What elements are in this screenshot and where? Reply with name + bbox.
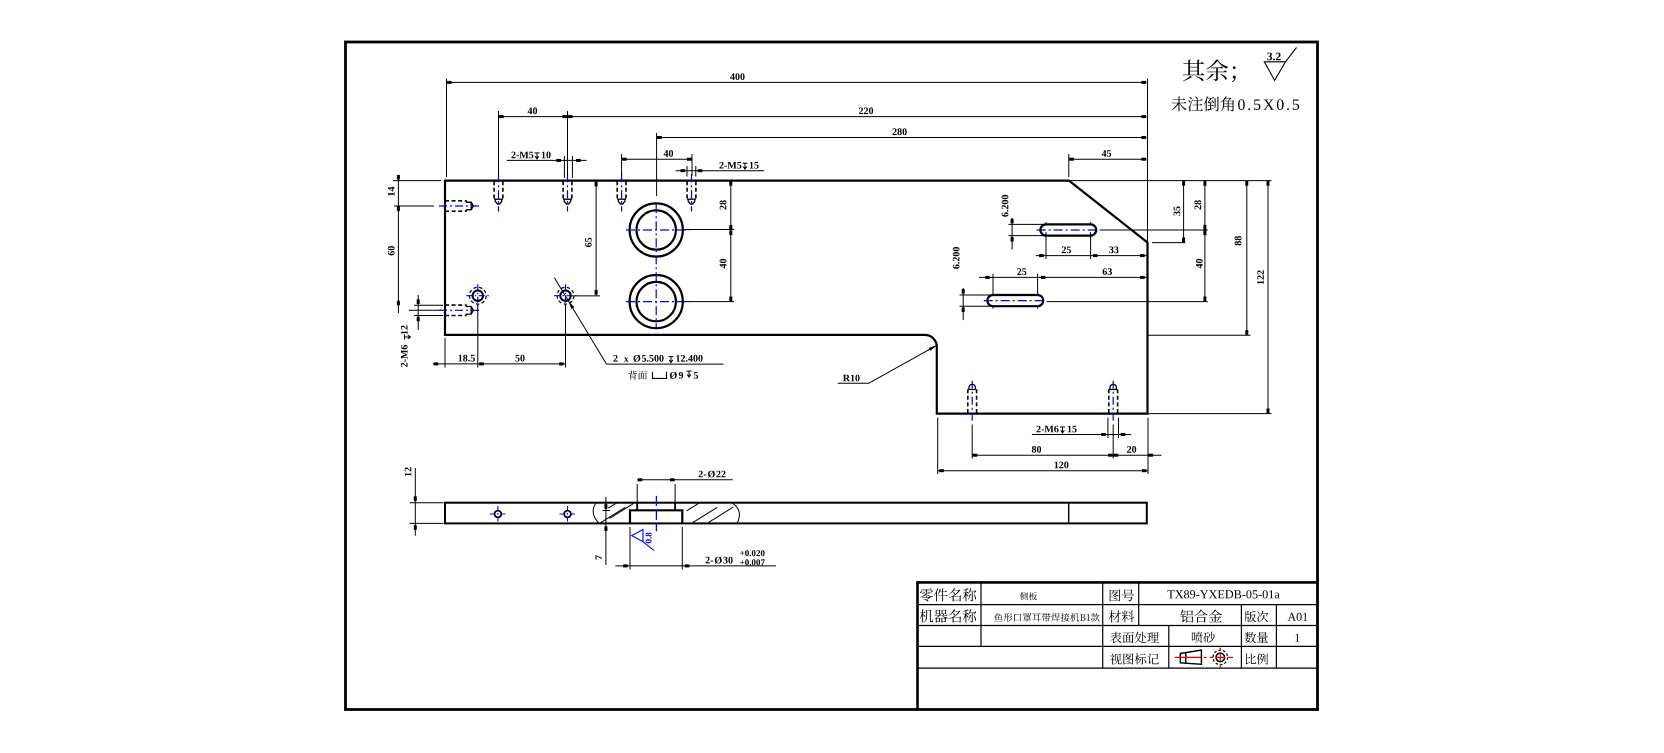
value part name 侧板 xyxy=(1020,592,1037,600)
break line right xyxy=(732,503,740,524)
dim 2-phi22 xyxy=(636,484,638,502)
dim 65 xyxy=(572,295,600,297)
centerline tapped hole x=567.5 xyxy=(567,174,569,211)
dim 280 xyxy=(656,133,658,196)
slot 2 (lower) xyxy=(987,295,1043,306)
tapped hole from top edge x=621.6 xyxy=(616,181,618,199)
dim 28 right xyxy=(1204,181,1206,230)
leader face holes callout xyxy=(554,278,606,364)
dim 2-phi30 with tolerance xyxy=(629,527,631,570)
centerline face hole x=477.8 xyxy=(466,295,489,297)
dim 6.200 upper slot xyxy=(1009,223,1045,225)
side view hole 1 xyxy=(495,511,502,518)
centerline big hole 2 horizontal xyxy=(626,301,690,303)
value 喷砂 xyxy=(1192,632,1215,643)
dim 12 thickness xyxy=(410,502,444,504)
label 版次 xyxy=(1245,611,1269,622)
title block frame xyxy=(916,582,919,709)
dim 25 upper slot xyxy=(1045,232,1047,259)
surface roughness symbol 3.2 xyxy=(1267,53,1281,61)
dim 28 left of circles xyxy=(684,229,735,231)
value quantity 1 xyxy=(1295,634,1299,642)
centerline tapped hole x=498.5 xyxy=(498,174,500,211)
dim 6.200 lower slot xyxy=(960,294,993,296)
big hole 1 inner circle xyxy=(637,210,676,249)
dim 40 (M5 holes) xyxy=(621,154,623,176)
centerline tab hole x=972.2 xyxy=(971,381,973,423)
label 视图标记 xyxy=(1110,653,1159,664)
tapped hole from top edge x=691.5 xyxy=(686,181,688,199)
roughness 0.8 blue symbol xyxy=(632,530,654,551)
centerline slot 2 xyxy=(984,300,1047,302)
value A01 xyxy=(1288,613,1308,621)
dim 220 and 40 xyxy=(498,111,500,176)
label 零件名称 xyxy=(920,588,977,601)
value 铝合金 xyxy=(1180,610,1222,623)
dim 40 left of circles xyxy=(684,301,735,303)
centerline slot 1 xyxy=(1037,229,1102,231)
projection symbol cone xyxy=(1180,650,1201,664)
dim 18.5 and 50 xyxy=(444,338,446,368)
label 材料 xyxy=(1109,610,1135,622)
label 比例 xyxy=(1246,653,1268,664)
side view chamfer edge line xyxy=(1068,503,1070,524)
big hole 2 inner circle xyxy=(637,282,676,321)
extension tab bottom right xyxy=(1148,413,1272,415)
dim 25-63 lower slot xyxy=(992,274,994,295)
counterbore phi30 pocket xyxy=(630,510,682,523)
centerline counterbore xyxy=(655,496,657,531)
callout 2-M6 depth12 xyxy=(414,304,443,306)
centerline side hole y=310.3 xyxy=(439,309,481,311)
centerline big holes vertical xyxy=(655,204,657,328)
dim 122 xyxy=(1267,181,1269,414)
leader R10 xyxy=(838,345,938,383)
dim 400 xyxy=(446,79,448,178)
side drilled hole M6 y=310.3 xyxy=(445,304,467,306)
tapped hole from top edge x=498.5 xyxy=(493,181,495,199)
centerline tab hole x=1113.2 xyxy=(1112,381,1114,423)
big hole 2 outer circle xyxy=(630,275,683,328)
side view outline xyxy=(445,503,1147,524)
centerline tapped hole x=621.6 xyxy=(621,174,623,211)
extension slot2 center right xyxy=(1047,301,1208,303)
label 图号 xyxy=(1110,589,1134,601)
centerline big hole 1 horizontal xyxy=(626,229,690,231)
note 未注倒角0.5X0.5 (unnoted chamfer) xyxy=(1171,96,1234,111)
hatching left xyxy=(601,507,625,522)
callout 2-M5 depth10 xyxy=(563,156,565,178)
projection symbol circles xyxy=(1213,650,1228,665)
dim 120 xyxy=(937,418,939,474)
dim 60 xyxy=(409,309,443,311)
counterbore hole phi22 walls xyxy=(636,503,638,511)
face hole 5.5 with back c'bore x=565.5 xyxy=(560,291,570,301)
projection symbol centerline red xyxy=(1175,656,1201,658)
dim 88 xyxy=(1246,181,1248,336)
drawing border frame xyxy=(346,42,1318,710)
extension slot1 center right xyxy=(1102,229,1208,231)
part outline main view xyxy=(445,181,1148,414)
dim 45 xyxy=(1068,154,1070,177)
label 表面处理 xyxy=(1110,632,1159,644)
note 其余 (others) xyxy=(1183,60,1236,83)
machine name small xyxy=(994,613,1099,622)
centerline face hole x=565.5 xyxy=(554,295,577,297)
extension chamfer bottom xyxy=(1152,242,1185,244)
dim 14 xyxy=(393,180,441,182)
label 数量 xyxy=(1245,632,1268,643)
callout 2-M5 depth15 xyxy=(686,166,688,177)
label 机器名称 xyxy=(920,609,977,622)
tapped hole tab x=972.2 xyxy=(967,390,969,414)
hatching right xyxy=(693,507,718,522)
tapped hole from top edge x=567.5 xyxy=(562,181,564,199)
side view hole 2 xyxy=(564,511,571,518)
callout second line 背面 counterbore xyxy=(628,371,647,380)
break line left xyxy=(593,503,599,524)
slot 1 (upper right) xyxy=(1040,224,1096,235)
centerline tapped hole x=691.5 xyxy=(691,174,693,211)
projection circles centerlines red xyxy=(1210,656,1214,658)
centerline side hole y=206 xyxy=(439,205,481,207)
dim 80 and 20 xyxy=(971,425,973,459)
extension top edge right xyxy=(1069,180,1272,182)
callout 2-M6 depth15 tab xyxy=(1107,418,1109,438)
extension bottom edge right xyxy=(1148,334,1251,336)
face hole 5.5 with back c'bore x=477.8 xyxy=(473,291,483,301)
big hole 1 outer circle xyxy=(630,203,683,256)
dim 40 right xyxy=(1204,230,1206,302)
drawing number xyxy=(1168,590,1280,598)
side drilled hole M6 y=206 xyxy=(445,200,467,202)
tapped hole tab x=1113.2 xyxy=(1108,390,1110,414)
dim 7 counterbore depth xyxy=(602,510,610,512)
dim 35 xyxy=(1183,181,1185,243)
